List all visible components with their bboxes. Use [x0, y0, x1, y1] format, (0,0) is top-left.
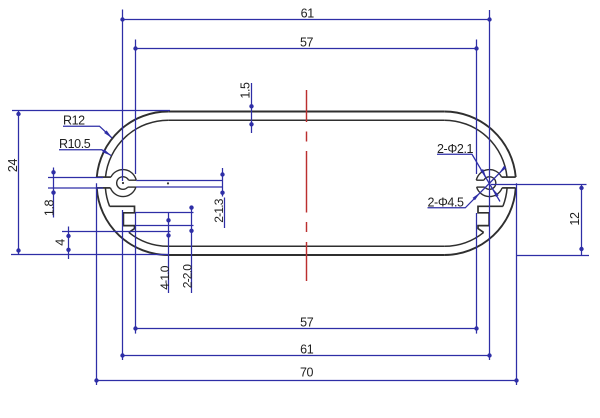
wire inner top wall [168, 119, 444, 121]
wire dim line 61 bottom [123, 355, 490, 357]
wire dim line 2-2.0 [191, 206, 193, 293]
node dot 12 top [579, 186, 583, 190]
wire ext line bottom outer horizontal right [516, 255, 589, 257]
node dot 1.5 upper [249, 104, 253, 108]
svg-text:1.5: 1.5 [239, 82, 253, 99]
wire outer left arc upper [97, 112, 168, 178]
svg-text:2-1.3: 2-1.3 [212, 198, 226, 222]
node boss outer arc top [111, 170, 136, 181]
node arrow phi2.1 lower [493, 188, 499, 197]
wire dim line 70 bottom [97, 380, 517, 382]
node centerline segment 2 [306, 132, 308, 142]
node slot top edge [97, 176, 111, 178]
svg-text:1.8: 1.8 [43, 199, 57, 216]
node dot 2-1.3 top [220, 172, 224, 176]
node dot 4 bottom [66, 248, 70, 252]
node dot 4 top [66, 234, 70, 238]
wire dim line 1.5 [251, 83, 253, 133]
node boss notch top edge [129, 179, 137, 181]
wire underline 2-1.3 text [224, 198, 226, 229]
wire inner left arc middle [105, 188, 109, 206]
node dot 70 bottom left [94, 378, 98, 382]
node dot 61 bottom left [120, 353, 124, 357]
node dot 12 bottom [579, 247, 583, 251]
wire outer top wall [168, 111, 444, 113]
svg-text:4-1.0: 4-1.0 [158, 265, 172, 289]
node dot 1.8 bottom [51, 190, 55, 194]
svg-text:57: 57 [300, 316, 314, 330]
wire ext line groove left vertical bottom [135, 213, 137, 334]
node arrow R10.5 [102, 149, 111, 155]
node dot 61 top left [120, 17, 124, 21]
wire ext line slot top (1.8) [48, 177, 103, 179]
wire dim line 24 [18, 111, 20, 255]
node boss notch bottom edge [128, 186, 136, 188]
wire ext line bottom outer horizontal left [11, 254, 168, 256]
wire outer bottom wall [168, 254, 444, 256]
node arrow R12 [104, 130, 112, 138]
node dot 24 top [16, 112, 20, 116]
svg-text:2-2.0: 2-2.0 [181, 264, 195, 288]
svg-text:4: 4 [54, 239, 68, 246]
node dot 1.5 lower [249, 122, 253, 126]
wire inner left arc lower [129, 232, 168, 246]
wire ext line boss notch bottom (2-1.3) [136, 186, 223, 188]
node centerline segment 5 [306, 242, 308, 281]
wire leader R12 [63, 126, 112, 138]
node PCB ledge and groove [110, 206, 135, 232]
node dot 61 bottom right [487, 353, 491, 357]
svg-text:61: 61 [300, 343, 314, 357]
wire dim line 1.8 [53, 168, 55, 218]
node dot 61 top right [487, 17, 491, 21]
node centerline segment 3 [306, 151, 308, 213]
node dot 57 top left [133, 46, 137, 50]
wire inner left arc upper [106, 120, 169, 177]
wire ext line outer left vertical [96, 183, 98, 385]
node dot 70 bottom right [514, 378, 518, 382]
node dot 1.8 top [51, 170, 55, 174]
wire outer left arc lower [97, 188, 168, 255]
node centerline segment 1 [306, 90, 308, 122]
wire ext line boss notch top (2-1.3) [136, 180, 222, 182]
svg-text:R12: R12 [63, 113, 85, 127]
svg-text:57: 57 [300, 35, 314, 49]
node slot bottom edge [97, 187, 111, 189]
wire dim line 57 top [136, 48, 477, 50]
svg-text:70: 70 [300, 366, 314, 380]
node centerline segment 4 [306, 222, 308, 232]
wire ext line boss center left vertical bottom [122, 210, 124, 360]
svg-text:R10.5: R10.5 [59, 137, 91, 151]
wire dim line 12 [581, 185, 583, 256]
wire ext line outer right vertical [516, 183, 518, 385]
wire ext line rib bottom (4 / 4-1.0) [62, 231, 171, 233]
wire ext line groove right vertical top [476, 40, 478, 175]
node arrow phi4.5 upper [499, 166, 507, 174]
wire dim line 4 [68, 227, 70, 260]
wire leader 2-phi4.5 [428, 170, 504, 208]
wire ext line boss center right vertical [489, 10, 491, 360]
svg-text:24: 24 [6, 159, 20, 173]
wire ext line groove top (2-2.0) [135, 212, 194, 214]
svg-text:2-Φ4.5: 2-Φ4.5 [428, 195, 465, 209]
svg-text:12: 12 [568, 212, 582, 226]
wire dim line 57 bottom [136, 328, 477, 330]
wire leader 2-phi2.1 [437, 154, 500, 201]
wire dim line 2-1.3 [222, 168, 224, 197]
node arrow phi2.1 upper [480, 169, 486, 178]
node dot 4-1.0 bottom [166, 233, 170, 237]
node arrow phi4.5 lower [473, 193, 481, 201]
node dot 2-2.0 bottom [189, 229, 193, 233]
node dot 57 top right [474, 46, 478, 50]
wire leader R10.5 [59, 150, 111, 156]
svg-text:2-Φ2.1: 2-Φ2.1 [437, 142, 474, 156]
node dot 57 bottom left [133, 326, 137, 330]
node dot 4-1.0 top [166, 218, 170, 222]
svg-text:61: 61 [301, 6, 315, 20]
node dot 57 bottom right [474, 326, 478, 330]
wire ext line groove bottom (2-2.0 / 4-1.0) [135, 225, 194, 227]
left end assembly (mirrored for right end) [97, 112, 168, 256]
wire ext line groove left vertical top [135, 40, 137, 175]
node dot 24 bottom [16, 248, 20, 252]
node screw hole C arc [117, 177, 129, 190]
node hole center mark [122, 182, 124, 184]
right end assembly (mirror) [444, 112, 515, 256]
node dot 2-2.0 top [189, 205, 193, 209]
node left arc center mark [167, 182, 169, 184]
node boss outer arc bottom [110, 187, 135, 196]
wire dim line 61 top [123, 19, 490, 21]
wire ext line top outer horizontal [12, 110, 170, 112]
wire inner bottom wall [168, 245, 444, 247]
wire ext line groove right vertical bottom [476, 213, 478, 334]
wire ext line slot bottom (1.8) [48, 187, 103, 189]
wire ext line boss center height right [491, 184, 587, 186]
wire ext line boss center left vertical top [122, 10, 124, 182]
node dot 2-1.3 bottom [220, 191, 224, 195]
wire dim line 4-1.0 [168, 213, 170, 293]
